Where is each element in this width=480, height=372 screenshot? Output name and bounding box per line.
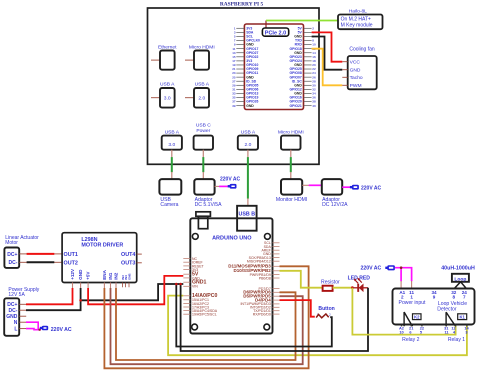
- GPIO pin 31 (GPIO06): [232, 87, 258, 91]
- L298N motor driver: [62, 233, 142, 289]
- wire (red) Arduino D4 to button: [280, 300, 315, 317]
- push button: [316, 306, 335, 318]
- svg-text:ARDUINO UNO: ARDUINO UNO: [212, 236, 252, 242]
- wire (magenta) 220V AC to detector power input: [395, 268, 412, 282]
- wire (black) button to GND: [176, 284, 331, 347]
- GPIO pin 29 (GPIO05): [232, 83, 258, 87]
- GPIO pin 5 (SCL): [234, 35, 253, 39]
- svg-text:220V AC: 220V AC: [360, 266, 381, 272]
- Loop Vehicle Detector unit: [393, 289, 475, 325]
- wire (magenta) monitor to adaptor 12V: [302, 184, 309, 186]
- svg-text:+5V: +5V: [86, 271, 91, 280]
- Arduino pin 18/A4/PC4/SDA: [183, 309, 217, 313]
- LED RED: [348, 276, 371, 293]
- Arduino pin TX/PD1/D1: [253, 309, 279, 313]
- wire (black) DC- / GND net: [26, 288, 81, 310]
- svg-text:USB A: USB A: [160, 81, 175, 87]
- Arduino pin 17/A3/PC3: [183, 305, 209, 309]
- svg-text:Relay 2: Relay 2: [402, 337, 419, 343]
- svg-text:3.0: 3.0: [168, 142, 175, 148]
- GPIO pin 8 (TXD): [295, 39, 314, 43]
- wire (magenta) adaptor 12V to 220V AC: [342, 186, 350, 188]
- Arduino pin SCL: [264, 241, 280, 245]
- wire (yellow) GPIO18 pin12 to fan PWM: [312, 49, 343, 86]
- svg-text:DC-: DC-: [9, 260, 18, 266]
- svg-text:OUT1: OUT1: [64, 252, 78, 258]
- svg-text:+12V: +12V: [70, 268, 75, 280]
- junction GND branch LED: [179, 283, 182, 286]
- svg-text:Resistor: Resistor: [321, 279, 340, 285]
- Arduino pin RESET: [183, 264, 204, 268]
- GPIO pin 28 (ID_SC): [292, 79, 316, 83]
- GPIO pin 19 (GPIO10): [232, 63, 258, 67]
- junction LED anode: [351, 286, 354, 289]
- wire (maroon) L298N IN1 to Arduino D5: [111, 288, 303, 364]
- GPIO pin 21 (GPIO09): [232, 67, 258, 71]
- 220V AC plug (adaptor 5.1V): [220, 176, 240, 188]
- svg-text:VCC: VCC: [350, 59, 361, 65]
- svg-text:OUT2: OUT2: [64, 261, 78, 267]
- Arduino pin INT0/PD2/D2: [250, 306, 280, 310]
- detector bottom terminals: [399, 325, 469, 343]
- Arduino pin PB0/D8: [259, 276, 280, 280]
- GPIO pin 14 (GND): [294, 51, 316, 55]
- svg-text:RASPBERRY PI 5: RASPBERRY PI 5: [220, 2, 264, 8]
- GPIO pin 25 (GND): [232, 75, 254, 79]
- wire (magenta) adaptor to 220V AC: [215, 185, 220, 187]
- svg-text:ENB: ENB: [128, 273, 132, 280]
- svg-text:Ethernet: Ethernet: [158, 44, 177, 50]
- GPIO pin 35 (GPIO19): [232, 96, 258, 100]
- GPIO pin 33 (GPIO13): [232, 92, 258, 96]
- Arduino pin MISO/PB4/D12: [247, 260, 280, 264]
- wire PCIe to header: [265, 21, 267, 29]
- 220V AC plug (adaptor 12V): [350, 185, 382, 192]
- svg-text:Button: Button: [318, 306, 334, 312]
- svg-text:19/A5/PC5/SCL: 19/A5/PC5/SCL: [192, 313, 217, 317]
- GPIO pin 20 (GND): [294, 63, 316, 67]
- detector terminals: [399, 290, 468, 312]
- Ethernet port: [151, 44, 177, 69]
- GPIO pin 24 (GPIO08): [290, 71, 316, 75]
- Arduino Uno board: [190, 218, 272, 333]
- svg-text:39: 39: [232, 104, 236, 108]
- junction GND branch button: [175, 283, 178, 286]
- 220V AC plug (detector): [360, 265, 394, 271]
- svg-text:Cooling fan: Cooling fan: [349, 47, 375, 53]
- wire (green) Micro HDMI to Monitor HDMI: [290, 150, 292, 179]
- 220V AC plug (power supply): [40, 326, 72, 333]
- Arduino pin VIN: [183, 285, 198, 289]
- svg-text:Micro HDMI: Micro HDMI: [278, 129, 304, 135]
- svg-text:M Key module: M Key module: [341, 23, 373, 29]
- wire (red) L298N +5V to Arduino 5V: [88, 276, 183, 304]
- svg-text:Detector: Detector: [437, 306, 457, 312]
- USB A 2.0 port (left): [185, 81, 210, 107]
- Arduino pin SDA: [264, 245, 280, 249]
- wire (black) motor DC- to OUT2: [54, 261, 62, 263]
- svg-text:1: 1: [410, 295, 413, 300]
- wire (green) USB A 3.0 to USB Camera: [171, 150, 173, 179]
- wire (yellow) resistor to LED: [333, 287, 353, 289]
- Power Supply 12V 5A: [4, 287, 40, 336]
- svg-text:Camera: Camera: [160, 202, 178, 208]
- svg-text:Hailo-8L: Hailo-8L: [349, 8, 367, 14]
- wire (black) LED cathode to GND: [181, 284, 368, 351]
- Arduino pin D4/PD4: [255, 297, 279, 302]
- wire (yellow) LED junction to Relay1 pin 12: [352, 288, 455, 335]
- Arduino pin SCK/PB5/D13: [249, 256, 280, 260]
- relay K2 contact: [404, 312, 421, 326]
- Arduino pin PWR/PB1/D9: [250, 273, 280, 277]
- junction power input: [400, 266, 403, 269]
- svg-text:OUT3: OUT3: [121, 261, 135, 267]
- Cooling fan: [342, 47, 376, 90]
- svg-text:Monitor HDMI: Monitor HDMI: [276, 197, 307, 203]
- GPIO header J8: [244, 24, 303, 110]
- svg-text:USB A: USB A: [165, 129, 180, 135]
- GPIO pin 13 (GPIO27): [232, 51, 258, 55]
- svg-text:GND: GND: [350, 67, 361, 73]
- GPIO pin 16 (GPIO23): [290, 55, 316, 59]
- DC barrel jack: [196, 212, 211, 217]
- Arduino pin 16/A2/PC2: [183, 302, 209, 306]
- GPIO pin 23 (GPIO11): [232, 71, 258, 75]
- GPIO pin 40 (GPIO21): [290, 104, 316, 108]
- Micro HDMI port (bottom): [278, 129, 304, 149]
- svg-text:PWM: PWM: [350, 83, 362, 89]
- wire (yellow) Arduino A0 to Relay1 pin 14: [168, 296, 467, 356]
- GPIO pin 38 (GPIO20): [290, 100, 316, 104]
- GPIO pin 27 (ID_SD): [232, 79, 256, 83]
- Hailo-8L module: [338, 8, 383, 29]
- GPIO pin 18 (GPIO24): [290, 59, 316, 63]
- GPIO pin 11 (GPIO17): [232, 47, 258, 51]
- svg-text:GND: GND: [246, 104, 254, 108]
- wire (red) DC+ to L298N +12V: [26, 288, 73, 304]
- Micro HDMI port (top): [185, 44, 215, 69]
- GPIO pin 22 (GPIO25): [290, 67, 316, 71]
- svg-text:220V AC: 220V AC: [361, 185, 381, 191]
- svg-text:PB0/D8: PB0/D8: [259, 276, 271, 280]
- Raspberry Pi 5 board outline: [148, 8, 320, 164]
- svg-text:GND: GND: [78, 269, 83, 280]
- Arduino pin INT1/PWM/PD3/D3: [240, 302, 279, 306]
- Arduino pin GND: [183, 276, 200, 280]
- wire (light green) PCIe to Hailo-8L: [266, 20, 338, 22]
- Arduino pin 14/A0/PC0: [183, 293, 217, 299]
- svg-text:Power input: Power input: [399, 300, 426, 306]
- GPIO pin 15 (GPIO22): [232, 55, 258, 59]
- svg-text:10: 10: [399, 329, 403, 334]
- GPIO pin 12 (GPIO18): [290, 47, 316, 51]
- svg-text:3.0: 3.0: [164, 96, 171, 102]
- GPIO pin 4 (5V): [298, 30, 315, 34]
- wire (green) USB C to power adaptor: [202, 150, 204, 179]
- USB A 2.0 port (bottom): [238, 129, 258, 149]
- svg-text:2.0: 2.0: [244, 142, 251, 148]
- junction 220V plug: [38, 329, 40, 331]
- GPIO pin 17 (3V3): [232, 59, 252, 63]
- svg-text:K1: K1: [460, 315, 466, 320]
- svg-text:N: N: [14, 320, 18, 326]
- svg-text:40uH-1000uH: 40uH-1000uH: [441, 266, 475, 272]
- wire (green) USB A 2.0 to Arduino USB B: [247, 150, 249, 206]
- wire (black) GND pin6 to fan GND: [312, 37, 343, 70]
- junction L298N GND: [79, 299, 82, 302]
- GPIO pin 39 (GND): [232, 104, 254, 108]
- GPIO pin 32 (GPIO12): [290, 87, 316, 91]
- svg-text:RX/PD0/D0: RX/PD0/D0: [253, 312, 271, 316]
- GPIO pin 1 (3V3): [234, 26, 252, 30]
- wire (red) motor DC+ to OUT1: [54, 253, 62, 255]
- GPIO pin 26 (GPIO07): [290, 75, 316, 79]
- svg-text:ENA: ENA: [102, 269, 107, 279]
- GPIO pin 2 (5V): [298, 26, 315, 30]
- svg-text:USB C: USB C: [196, 122, 211, 128]
- Loop coil: [452, 274, 469, 289]
- svg-text:PCIe 2.0: PCIe 2.0: [265, 30, 286, 36]
- Arduino pin 19/A5/PC5/SCL: [183, 313, 216, 317]
- svg-text:8: 8: [453, 295, 456, 300]
- Arduino pin GND1: [183, 280, 206, 286]
- GPIO pin 30 (GND): [294, 83, 316, 87]
- wire (sienna) L298N IN2 to Arduino D6: [116, 288, 296, 360]
- wire (sienna) L298N ENA to Arduino D11: [104, 266, 308, 368]
- svg-text:DC+: DC+: [7, 252, 17, 258]
- USB Camera: [159, 179, 181, 208]
- svg-text:GPIO21: GPIO21: [290, 104, 302, 108]
- svg-text:Power: Power: [196, 128, 210, 134]
- wire (magenta) N/L to 220V AC: [26, 322, 41, 330]
- Arduino pin 15/A1/PC1: [183, 298, 209, 302]
- GPIO pin 34 (GND): [294, 92, 316, 96]
- USB B connector: [237, 206, 257, 231]
- svg-text:Motor: Motor: [5, 240, 18, 246]
- svg-text:K2: K2: [414, 315, 420, 320]
- GPIO pin 6 (GND): [294, 35, 314, 39]
- GPIO pin 3 (SDA): [234, 30, 254, 34]
- PCIe 2.0 connector label box: [262, 28, 288, 36]
- Monitor HDMI: [276, 179, 307, 203]
- USB C Power port: [194, 122, 213, 149]
- svg-text:USB A: USB A: [195, 81, 210, 87]
- svg-text:Micro HDMI: Micro HDMI: [189, 44, 215, 50]
- svg-text:IN1: IN1: [108, 272, 113, 280]
- Arduino pin IOREF: [183, 261, 202, 265]
- GPIO pin 7 (GPCLK0): [234, 39, 260, 43]
- Adaptor DC 5.1V/5A: [194, 179, 222, 208]
- svg-text:7: 7: [463, 295, 466, 300]
- Adaptor DC 12V/2A: [322, 179, 348, 208]
- svg-text:DC 5.1V/5A: DC 5.1V/5A: [195, 202, 222, 208]
- svg-text:VIN: VIN: [192, 285, 198, 289]
- Arduino pin D5/PWR/PD5: [243, 294, 279, 299]
- svg-text:USB A: USB A: [241, 129, 256, 135]
- svg-text:220V AC: 220V AC: [51, 327, 72, 333]
- GPIO pin 10 (RXD): [295, 43, 316, 47]
- svg-text:On M.2 HAT+: On M.2 HAT+: [341, 17, 371, 23]
- wire (red) 5V pin4 to fan VCC: [312, 32, 343, 61]
- Arduino pin D6/PWR/PD6: [243, 290, 279, 295]
- USB A 3.0 port (bottom): [162, 129, 182, 149]
- svg-text:Loop: Loop: [454, 276, 466, 282]
- Arduino pin NC: [183, 257, 197, 261]
- svg-text:Relay 1: Relay 1: [448, 337, 465, 343]
- relay K1 contact: [446, 312, 467, 326]
- svg-text:2.0: 2.0: [198, 96, 205, 102]
- resistor: [321, 279, 340, 291]
- Arduino pin PD7/D7: [259, 287, 280, 291]
- wire (yellow) Arduino D10 to resistor: [280, 271, 323, 288]
- USB A 3.0 port (left): [151, 81, 175, 107]
- wire (black) L298N GND to Arduino GND1: [81, 284, 184, 300]
- svg-text:IN2: IN2: [114, 272, 119, 280]
- Linear Actuator Motor: [4, 235, 39, 268]
- Arduino pin GND: [263, 252, 279, 256]
- svg-text:9: 9: [433, 295, 436, 300]
- Arduino pin D11/MOSI/PWR/PB3: [228, 264, 279, 269]
- Arduino pin AREF: [261, 249, 279, 253]
- Arduino pin 5V: [183, 272, 199, 278]
- Arduino pin RX/PD0/D0: [253, 312, 280, 316]
- Arduino pin 3V3: [183, 268, 198, 272]
- svg-text:MOTOR DRIVER: MOTOR DRIVER: [81, 243, 123, 249]
- svg-text:L: L: [14, 326, 17, 332]
- svg-text:Tacho: Tacho: [350, 75, 363, 81]
- svg-text:2: 2: [401, 295, 404, 300]
- GPIO pin 9 (GND): [234, 43, 254, 47]
- mounting holes: [192, 234, 198, 240]
- svg-text:USB B: USB B: [239, 211, 256, 217]
- GPIO pin 36 (GPIO16): [290, 96, 316, 100]
- svg-text:DC 12V/2A: DC 12V/2A: [322, 202, 348, 208]
- svg-text:220V AC: 220V AC: [220, 176, 240, 182]
- svg-text:OUT4: OUT4: [121, 252, 135, 258]
- svg-text:40: 40: [312, 104, 316, 108]
- Arduino pin D10/SS/PWR/PB2: [234, 268, 280, 273]
- svg-text:12V 5A: 12V 5A: [8, 292, 25, 298]
- GPIO pin 37 (GPIO26): [232, 100, 258, 104]
